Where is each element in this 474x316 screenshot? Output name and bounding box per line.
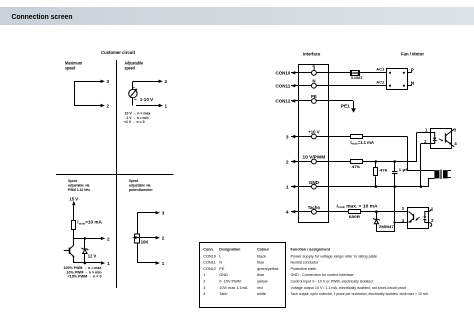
svg-text:Conn.: Conn. (203, 248, 213, 252)
svg-text:Protective earth: Protective earth (291, 267, 317, 271)
svg-text:3: 3 (107, 79, 110, 84)
svg-text:red: red (257, 286, 263, 290)
svg-text:CON11: CON11 (203, 261, 215, 265)
svg-text:2: 2 (286, 159, 289, 165)
svg-text:yellow: yellow (257, 280, 268, 284)
svg-text:PE: PE (311, 94, 317, 99)
svg-text:Connection screen: Connection screen (12, 12, 73, 21)
svg-text:Function / assignment: Function / assignment (291, 248, 331, 252)
svg-text:GND: GND (309, 180, 319, 185)
svg-text:Tach: Tach (219, 292, 227, 296)
svg-text:green/yellow: green/yellow (257, 267, 279, 271)
svg-text:Tacho: Tacho (308, 205, 321, 210)
svg-text:3: 3 (203, 286, 205, 290)
svg-text:+10 V: +10 V (308, 129, 319, 134)
svg-text:GND: GND (219, 273, 228, 277)
svg-text:1: 1 (203, 273, 205, 277)
svg-text:3: 3 (162, 211, 165, 216)
svg-text:2: 2 (107, 103, 110, 108)
svg-text:N: N (411, 80, 415, 86)
svg-text:CON11: CON11 (276, 83, 291, 88)
svg-text:Isink max. = 10 mA: Isink max. = 10 mA (337, 204, 378, 210)
svg-text:Colour: Colour (257, 248, 269, 252)
svg-text:2: 2 (107, 236, 110, 241)
svg-text:Fan / Motor: Fan / Motor (401, 52, 424, 58)
svg-text:680R: 680R (349, 214, 360, 219)
svg-text:0- 10V PWM: 0- 10V PWM (219, 280, 241, 284)
svg-text:Tach output: open collector, 1: Tach output: open collector, 1 pulse per… (291, 292, 429, 296)
svg-text:ZMM47: ZMM47 (379, 224, 395, 229)
svg-text:speed: speed (65, 66, 76, 71)
svg-text:black: black (257, 254, 266, 258)
svg-text:Power supply for voltage range: Power supply for voltage range refer to … (291, 254, 378, 258)
svg-text:AC2: AC2 (376, 80, 385, 85)
svg-text:15 V: 15 V (70, 196, 79, 201)
svg-text:CON12: CON12 (276, 99, 291, 104)
svg-text:2: 2 (203, 280, 205, 284)
svg-text:blue: blue (257, 273, 264, 277)
svg-text:Voltage output 10 V / 1.1 mA,: Voltage output 10 V / 1.1 mA, electrical… (291, 286, 407, 290)
svg-text:blue: blue (257, 261, 264, 265)
svg-text:Speed: Speed (68, 179, 78, 183)
svg-text:Neutral conductor: Neutral conductor (291, 261, 320, 265)
svg-text:adjustable via: adjustable via (129, 184, 151, 188)
svg-text:1 µF: 1 µF (399, 167, 409, 172)
svg-text:1: 1 (286, 184, 289, 190)
svg-text:Interface: Interface (303, 52, 321, 58)
svg-text:3.15AT: 3.15AT (351, 75, 363, 80)
svg-text:1-10 V: 1-10 V (140, 97, 153, 102)
svg-text:Customer circuit: Customer circuit (101, 50, 135, 56)
svg-text:10 V/PWM: 10 V/PWM (303, 155, 326, 160)
svg-text:L: L (219, 254, 221, 258)
svg-text:adjustable via: adjustable via (68, 184, 90, 188)
svg-text:Control input 0 - 10 V or PWM,: Control input 0 - 10 V or PWM, electrica… (291, 280, 373, 284)
svg-text:1: 1 (165, 103, 168, 108)
svg-text:CON10: CON10 (276, 70, 291, 75)
svg-text:N: N (219, 261, 222, 265)
svg-text:4: 4 (203, 292, 205, 296)
svg-text:47k: 47k (352, 164, 361, 169)
svg-text:Isink=10 mA: Isink=10 mA (77, 220, 102, 226)
svg-text:AC1: AC1 (376, 67, 385, 72)
svg-text:Speed: Speed (129, 179, 139, 183)
svg-text:CON10: CON10 (203, 254, 216, 258)
svg-text:3: 3 (286, 134, 289, 140)
svg-text:<10% PWM → n = 0: <10% PWM → n = 0 (68, 275, 102, 279)
svg-text:4: 4 (286, 210, 289, 216)
svg-text:2: 2 (162, 236, 165, 241)
svg-text:<1 V → n = 0: <1 V → n = 0 (124, 120, 145, 124)
svg-text:PE1: PE1 (341, 104, 351, 109)
svg-text:2: 2 (165, 79, 168, 84)
svg-text:10V/ max 1.1mA: 10V/ max 1.1mA (219, 286, 248, 290)
svg-text:+: + (133, 86, 135, 90)
svg-text:PWM 1-10 kHz: PWM 1-10 kHz (68, 188, 90, 192)
svg-text:1: 1 (162, 261, 165, 266)
svg-text:GND - Connection for control i: GND - Connection for control interface (291, 273, 354, 277)
svg-text:12 V: 12 V (88, 254, 96, 259)
svg-text:N: N (312, 79, 315, 84)
svg-text:CON12: CON12 (203, 267, 216, 271)
svg-text:47k: 47k (380, 168, 389, 173)
svg-text:speed: speed (125, 66, 136, 71)
svg-text:Imax=1.1 mA: Imax=1.1 mA (351, 140, 374, 146)
svg-text:white: white (257, 292, 266, 296)
svg-text:Designation: Designation (219, 248, 241, 252)
svg-text:PE: PE (219, 267, 225, 271)
svg-text:10K: 10K (141, 240, 149, 245)
svg-text:1: 1 (107, 261, 110, 266)
svg-text:potentiometer: potentiometer (129, 188, 153, 192)
